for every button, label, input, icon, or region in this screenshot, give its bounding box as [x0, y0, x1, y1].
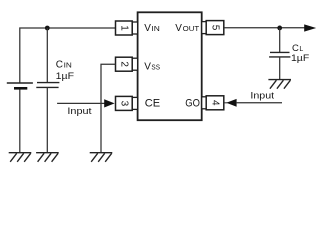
svg-text:Input: Input [67, 106, 92, 117]
IC U1 body [138, 12, 202, 120]
svg-text:OUT: OUT [183, 26, 200, 33]
svg-text:L: L [299, 46, 303, 53]
svg-text:4: 4 [210, 100, 221, 106]
pin 5 box [206, 21, 224, 35]
pin 4 lead stub [202, 97, 207, 109]
pin 2 lead stub [132, 58, 137, 70]
svg-text:5: 5 [210, 25, 221, 31]
svg-text:1: 1 [118, 25, 129, 31]
svg-text:GO: GO [185, 98, 200, 110]
ground (VSS) [90, 153, 113, 162]
ground (CIN) [36, 153, 59, 162]
svg-text:3: 3 [118, 101, 129, 107]
wire: CIN to ground [46, 87, 48, 152]
ground (CL) [268, 80, 291, 89]
node: junction of CL with output rail [277, 26, 282, 31]
wire: CE input [57, 102, 107, 104]
ground (battery) [9, 153, 32, 162]
svg-text:IN: IN [64, 63, 72, 70]
svg-text:V: V [144, 23, 151, 34]
battery B1 short negative plate [14, 87, 27, 90]
wire: junction down to CL [279, 28, 281, 53]
svg-text:1µF: 1µF [56, 71, 75, 82]
svg-text:V: V [144, 62, 151, 73]
capacitor CIN bottom plate [36, 86, 58, 88]
wire: input rail from battery corner to VIN pin [20, 28, 116, 83]
arrowhead into CE [104, 99, 114, 107]
wire: battery to ground [19, 90, 21, 153]
pin 5 lead stub [202, 22, 207, 34]
capacitor CL top plate [270, 51, 290, 53]
svg-text:1µF: 1µF [291, 53, 309, 64]
wire: CL to ground [279, 57, 281, 80]
wire: junction down to CIN [46, 28, 48, 83]
pin 4 box [206, 96, 224, 110]
svg-text:CE: CE [145, 98, 160, 110]
battery B1 long positive plate [7, 82, 33, 84]
arrowhead into GO [226, 99, 236, 107]
wire: GO input [237, 102, 282, 104]
pin 2 box [116, 57, 133, 71]
wire: GO pin stub to arrow tip [224, 102, 227, 104]
node: junction of CIN with input rail [45, 26, 50, 31]
capacitor CL bottom plate [269, 56, 290, 58]
pin 3 lead stub [132, 97, 137, 109]
svg-text:C: C [292, 43, 299, 54]
wire: VOUT to output arrow [224, 27, 305, 29]
pin 1 box [116, 21, 133, 35]
wire: VSS to ground [101, 64, 116, 152]
svg-text:C: C [56, 60, 63, 71]
pin 3 box [116, 96, 133, 110]
svg-text:2: 2 [118, 61, 129, 67]
svg-text:V: V [175, 23, 182, 34]
capacitor CIN top plate [37, 82, 59, 84]
svg-text:IN: IN [151, 26, 159, 33]
arrowhead output [304, 24, 316, 31]
svg-text:SS: SS [151, 65, 160, 72]
pin 1 lead stub [132, 22, 137, 34]
svg-text:Input: Input [250, 90, 274, 101]
